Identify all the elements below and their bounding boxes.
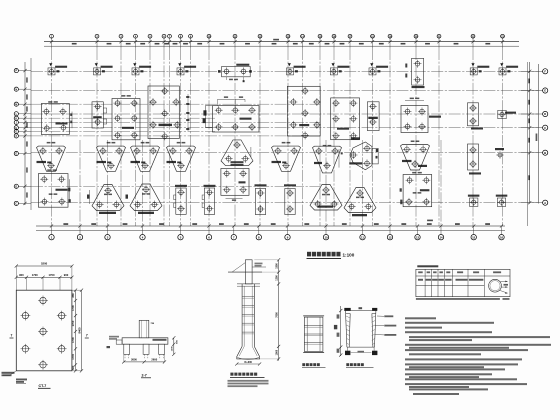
dimension ticks column x188 (186, 96, 189, 98)
svg-text:D: D (15, 185, 17, 188)
retaining wall detail label (346, 363, 349, 366)
pile cap ZJ48-4.70 axis x=502.5 (499, 68, 506, 75)
bottom axis 8 (257, 224, 260, 227)
pentagon pile cap normal x=237 (221, 140, 253, 166)
svg-text:1700: 1700 (32, 273, 38, 277)
svg-text:G: G (15, 131, 17, 134)
svg-text:D+300: D+300 (244, 361, 252, 364)
bottom axis 14 (439, 224, 442, 227)
table header cells (418, 271, 423, 273)
dimension bracket over center block (218, 98, 246, 100)
right axis E (528, 89, 531, 92)
left axis P (23, 69, 26, 72)
top axis 9 (189, 40, 192, 43)
top axis 4 (134, 40, 137, 43)
top axis 11 (233, 40, 236, 43)
retaining wall detail top line and label (344, 310, 377, 312)
pile cap ZJ48-4.70 axis x=473.7 (470, 68, 477, 75)
pile cap ZJ48-4.70 axis x=290 (287, 68, 294, 75)
stray label B (107, 346, 111, 348)
svg-text:15: 15 (472, 235, 476, 239)
left dimension line (24, 62, 26, 205)
table circle leader arrows (500, 281, 508, 293)
dig pile notes (228, 380, 269, 382)
top axis 19 (388, 40, 391, 43)
bottom axis 11 (361, 224, 364, 227)
pentagon pile cap inverted three piles x=286 (272, 146, 301, 171)
dim bracket right of cap x=237 (250, 147, 252, 157)
bottom axis 10 (324, 224, 327, 227)
section 2-7 cap slab (122, 338, 168, 344)
svg-text:1200: 1200 (276, 275, 279, 281)
pile cap ZJ48-4.70 axis x=333.8 (330, 68, 337, 75)
retaining wall feet tabs (345, 351, 350, 355)
table title (417, 265, 438, 267)
svg-text:1700: 1700 (71, 320, 75, 326)
svg-text:M: M (15, 103, 17, 106)
svg-text:1700: 1700 (49, 273, 55, 277)
notes text block (405, 317, 436, 319)
bottom axis 15 (472, 224, 475, 227)
svg-text:F: F (544, 69, 546, 73)
svg-text:900: 900 (64, 273, 69, 277)
bottom axis 4 (141, 224, 144, 227)
retaining wall right leaders (377, 315, 384, 317)
dig pile ground line (228, 271, 262, 273)
top axis 23 (501, 40, 504, 43)
svg-text:14: 14 (439, 235, 443, 239)
bottom axis 12 (388, 224, 391, 227)
svg-text:2600: 2600 (151, 358, 157, 362)
pile cap single lower right 1 (470, 198, 478, 206)
svg-text:N: N (15, 88, 17, 91)
dig pile label (230, 373, 233, 376)
pile cap CT-4 four piles left (41, 104, 69, 135)
detail CT-7 top dimension segments (16, 276, 72, 278)
top axis 13 (286, 40, 289, 43)
right axis A (528, 201, 531, 204)
retaining wall schematic label (302, 363, 305, 366)
top dimension line (44, 41, 519, 43)
svg-text:C: C (544, 126, 546, 130)
top axis 1 (50, 40, 53, 43)
pile cap two piles vertical right F (468, 144, 479, 170)
top axis 3 (119, 40, 122, 43)
svg-text:16: 16 (500, 235, 504, 239)
dim line right of cap x=327 (338, 149, 340, 168)
retaining wall left dimension (340, 306, 342, 356)
svg-text:7000: 7000 (276, 312, 279, 318)
retaining wall bottom inner dim (351, 351, 372, 353)
top axis 21 (437, 40, 440, 43)
svg-text:2-7: 2-7 (142, 374, 147, 378)
svg-text:D: D (544, 112, 546, 116)
section 2-7 pile stubs (124, 344, 130, 354)
section 2-7 left step (116, 340, 122, 344)
top axis 5 (148, 40, 151, 43)
svg-text:1200: 1200 (172, 346, 174, 352)
retaining wall schematic ladder (304, 317, 323, 351)
right axis F (528, 70, 531, 73)
svg-text:860: 860 (71, 293, 75, 298)
pile cap four piles lower-left CT (38, 174, 68, 208)
pile cap two piles vertical lower x=209.5 (204, 188, 214, 214)
pentagon pile cap inverted x=327 (313, 146, 342, 173)
pile cap four piles ZJ48-4.50 (401, 106, 428, 133)
pentagon pile cap lower x=326 (310, 185, 342, 211)
bottom axis 2 (78, 224, 81, 227)
svg-text:7: 7 (86, 334, 88, 338)
left axis F (23, 134, 26, 137)
dig pile cap slab (237, 283, 260, 285)
bottom dimension line (36, 225, 505, 227)
left axis G (23, 130, 26, 133)
pile cap six piles center block ZJ48-4.85 (213, 106, 260, 132)
dim riser between caps (206, 105, 213, 127)
retaining wall bottom line (347, 346, 375, 348)
horizontal grid lines main (31, 70, 538, 72)
dig pile bell bottom (237, 346, 260, 359)
svg-text:CT-7: CT-7 (39, 384, 47, 388)
plan title 桩位平面布置图 1:100 (307, 252, 311, 257)
section 2-7 column stub (139, 320, 149, 338)
pile cap seven piles cross pattern (148, 86, 179, 139)
section 2-7 left leader text (109, 336, 119, 338)
table pile section circle (489, 279, 502, 292)
pile cap ZJ48-4.30 axis x=97 (94, 68, 101, 75)
table body cells (418, 279, 423, 281)
detail CT-7 corner leader notes (3, 371, 16, 375)
pile cap single lower right 2 (497, 198, 505, 206)
bottom axis 1 (50, 224, 53, 227)
bottom axis 7 (232, 224, 235, 227)
top axis 12 (258, 40, 261, 43)
small cap marker x=500 upper (495, 148, 504, 150)
pile cap two piles vertical lower x=181 (176, 188, 186, 214)
table note line (416, 298, 500, 300)
top axis 2 (95, 40, 98, 43)
section 2-7 right dimension (173, 338, 175, 355)
left axis N (23, 88, 26, 91)
top axis 22 (471, 40, 474, 43)
svg-text:7: 7 (11, 334, 13, 338)
left axis D (23, 185, 26, 188)
svg-text:B: B (544, 151, 546, 155)
svg-text:A: A (544, 201, 546, 205)
pile cap two piles vertical lower x=290 (285, 189, 295, 215)
pile cap ZJ48-4.70 axis x=180.5 (177, 68, 184, 75)
pentagon pile cap lower x=360 (344, 188, 376, 213)
bottom axis 6 (207, 224, 210, 227)
svg-text:K: K (15, 117, 17, 120)
pile cap narrow two piles (92, 102, 103, 128)
pile cap four piles mid-lower ZJ48-4.50 (221, 169, 249, 196)
vertical grid lines (51, 48, 53, 226)
left axis H (23, 126, 26, 129)
pile cap six piles ZJ48-4.70 (left block) (112, 99, 140, 140)
right total dimension line (538, 64, 540, 204)
svg-text:900: 900 (19, 273, 24, 277)
pentagon pile cap inverted three piles x=145 (131, 146, 160, 171)
bottom axis 16 (500, 224, 503, 227)
svg-text:1700: 1700 (71, 305, 75, 311)
dig pile column (245, 260, 252, 284)
svg-text:C: C (15, 203, 17, 206)
top axis 15 (318, 40, 321, 43)
svg-text:1500: 1500 (276, 263, 279, 269)
pentagon pile cap inverted three piles x=51 (37, 146, 66, 171)
svg-text:10: 10 (324, 235, 328, 239)
svg-text:1000: 1000 (276, 349, 279, 355)
svg-text:1700: 1700 (71, 337, 75, 343)
right axis C (528, 126, 531, 129)
right axis D (528, 112, 531, 115)
detail CT-7 top dimension 5200 (16, 265, 72, 267)
svg-text:1700: 1700 (71, 353, 75, 359)
svg-text:1:100: 1:100 (343, 252, 355, 257)
left plan edge line (30, 58, 32, 210)
svg-text:E: E (544, 89, 546, 93)
detail CT-7 right dimension lines (75, 290, 77, 371)
pile reinforcement table frame (416, 269, 510, 296)
pile cap ZJ48-4.70 axis x=135.5 (132, 68, 139, 75)
section 2-7 right labels (153, 339, 167, 341)
right dimension line (529, 62, 531, 204)
dig pile right dimension line (278, 260, 280, 361)
left axis E (23, 152, 26, 155)
svg-text:560: 560 (71, 365, 75, 370)
bottom axis 5 (179, 224, 182, 227)
bottom axis 9 (286, 224, 289, 227)
svg-text:12: 12 (388, 235, 392, 239)
pile cap two piles vertical right D (468, 103, 479, 126)
pile cap two piles vertical ZJ48-4.85 (367, 102, 379, 131)
top second line (44, 45, 519, 47)
left axis M (23, 103, 26, 106)
horizontal grid lines partial (31, 103, 320, 105)
top axis 17 (348, 40, 351, 43)
pile cap ZJ48-4.30 axis x=51.5 (48, 68, 55, 75)
pile cap six piles ZJ48-4.85 right block (331, 98, 360, 140)
pilaster tabs (103, 108, 106, 113)
detail CT-7 cap outline (16, 290, 72, 371)
pile cap rotated pentagon x=367 with side tab (350, 142, 372, 170)
top axis 6 (162, 40, 165, 43)
svg-text:2600: 2600 (131, 358, 137, 362)
pentagon pile cap inverted three piles x=111 (97, 146, 126, 171)
left dimension value smudges (26, 77, 28, 82)
bottom axis 13 (416, 224, 419, 227)
cap C1 right dim (71, 112, 73, 129)
left axis K (23, 117, 26, 120)
top axis 18 (371, 40, 374, 43)
bottom overall dimension 50800 (427, 220, 433, 222)
svg-text:8400: 8400 (77, 327, 81, 333)
section 2-7 bottom dimension (124, 361, 165, 363)
top axis 16 (332, 40, 335, 43)
pile cap seven piles cross pattern right (287, 86, 320, 136)
left axis C (23, 202, 26, 205)
pile cap two-pile vertical top right (412, 58, 424, 85)
svg-text:11: 11 (361, 235, 364, 239)
pile cap single right E (498, 110, 506, 118)
pile cap two piles vertical lower x=260.5 (255, 189, 265, 215)
dig pile bottom dim (237, 363, 260, 365)
left axis J (23, 121, 26, 124)
svg-text:5200: 5200 (41, 262, 48, 266)
retaining wall detail walls (346, 311, 351, 347)
plan bottom edge line (36, 230, 505, 232)
retaining wall hatch (346, 316, 350, 345)
left axis L (23, 112, 26, 115)
top axis 14 (301, 40, 304, 43)
building outline right (527, 62, 529, 226)
pile cap ZJ48-4.70 axis x=372.5 (369, 68, 376, 75)
svg-text:13: 13 (416, 235, 420, 239)
cap Q1 right dim (69, 179, 71, 201)
pile cap four piles right block ZJ48-4.50 (403, 175, 432, 207)
dig pile shaft (241, 284, 243, 346)
top axis 20 (414, 40, 417, 43)
dig pile shaft rungs (242, 295, 254, 297)
bottom axis 3 (106, 224, 109, 227)
right overall dimension 14100 (536, 134, 538, 142)
top axis 10 (207, 40, 210, 43)
pentagon pile cap inverted x=415 (401, 145, 430, 171)
right axis B (528, 151, 531, 154)
top axis 7 (168, 40, 171, 43)
pile cap two-pile horizontal B7 (222, 67, 251, 77)
retaining wall detail top flange tabs (344, 308, 350, 311)
pentagon pile cap lower x=108 (92, 185, 124, 211)
top overall dimension label 54600 (273, 39, 279, 41)
detail CT-7 piles (38, 296, 48, 306)
pentagon pile cap lower x=146 (130, 184, 162, 211)
top axis 8 (179, 40, 182, 43)
pentagon pile cap inverted three piles x=181 (167, 146, 196, 171)
